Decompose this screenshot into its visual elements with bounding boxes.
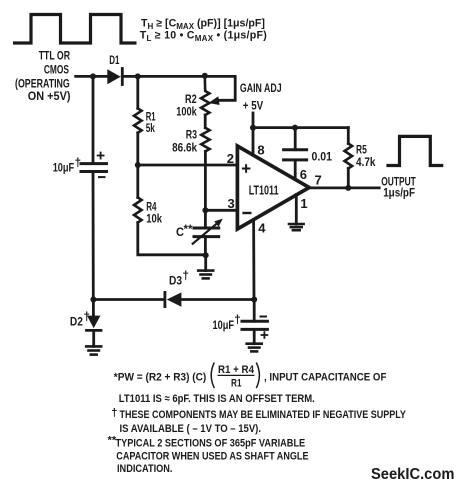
wire: R4 bottom rail to C node [138,223,206,255]
svg-text:†: † [183,270,189,283]
op-amp comparator U1 LT1011 [237,146,309,229]
ground below pin 1 [289,224,304,230]
wire: top to R1 [136,76,139,108]
wire: rail corner to R5 [347,128,350,144]
wire: pin2 node to R4 [136,165,139,198]
svg-text:4.7k: 4.7k [356,156,376,169]
svg-text:86.6k: 86.6k [172,142,197,155]
output pulse waveform [388,136,442,165]
node: D1/R1 junction [135,73,141,79]
svg-text:†: † [75,157,81,170]
svg-text:*PW = (R2 + R3) (C): *PW = (R2 + R3) (C) [114,371,207,383]
diode D3 [165,292,182,306]
wire: R5 bottom to output [347,169,350,188]
resistor R4 [134,198,142,223]
node: source/left-rail junction [90,73,96,79]
wire: output line from pin 7 [309,186,379,189]
node: pin3/C junction [202,207,208,213]
polarity - (input cap) [99,176,105,178]
wire: C bottom to ground node [204,237,207,256]
svg-text:10μF: 10μF [53,162,74,175]
wire: pin 2 line [138,164,238,167]
svg-text:8: 8 [257,142,264,157]
diode D1 [107,69,122,85]
fraction (R1 + R4)/R1 [211,363,259,390]
wire: 0.01 to pin 6 [294,160,297,180]
wire: node to ground [204,255,207,270]
svg-text:ON +5V): ON +5V) [28,90,71,103]
ground below D2 [86,346,101,354]
label R2 [176,93,197,118]
svg-text:LT1011: LT1011 [249,183,279,198]
svg-text:+ 5V: + 5V [243,100,264,113]
svg-text:3: 3 [228,196,235,211]
polarity + (input cap) [98,153,104,159]
svg-text:IS AVAILABLE ( – 1V TO – 15V): IS AVAILABLE ( – 1V TO – 15V). [120,423,262,435]
node: D2/D3 junction [90,297,96,303]
svg-text:†: † [111,407,117,419]
svg-text:D2: D2 [70,315,83,328]
diode D2 [87,316,102,331]
svg-text:GAIN ADJ: GAIN ADJ [240,82,282,95]
capacitor 0.01 [284,150,307,160]
svg-text:6: 6 [300,167,307,182]
svg-text:THESE COMPONENTS MAY BE ELIMIN: THESE COMPONENTS MAY BE ELIMINATED IF NE… [120,409,407,421]
capacitor C2 10uF bypass [242,321,267,329]
svg-text:**: ** [184,223,194,236]
svg-text:D1: D1 [109,54,120,67]
svg-text:INDICATION.: INDICATION. [117,463,173,475]
node: C/R4/ground junction [203,252,209,258]
svg-text:CAPACITOR WHEN USED AS SHAFT A: CAPACITOR WHEN USED AS SHAFT ANGLE [116,450,309,462]
svg-text:10μF: 10μF [213,319,235,332]
wire: bypass cap to ground [253,329,256,343]
op-amp + input sign [243,165,250,172]
svg-text:R1: R1 [231,378,242,390]
ground below bypass cap [247,344,262,352]
potentiometer R2 [201,76,209,115]
svg-text:TTL OR: TTL OR [39,50,71,63]
resistor R3 [201,128,209,152]
wire: +5V to pin 8 [252,113,255,155]
svg-text:SeekIC.com: SeekIC.com [371,466,454,483]
svg-text:†: † [84,311,90,324]
svg-text:0.01: 0.01 [312,150,333,163]
wire: left rail lower [92,172,95,300]
svg-text:7: 7 [315,173,322,188]
svg-text:R3: R3 [186,129,198,142]
svg-text:(OPERATING: (OPERATING [15,78,70,91]
wire: R2 to R3 [204,115,207,128]
input TTL square-wave waveform [13,15,137,44]
wire: pin 1 to ground [295,195,298,225]
svg-text:1μs/pF: 1μs/pF [383,187,415,200]
svg-text:100k: 100k [176,105,197,118]
node: pin4/bypass-cap junction [251,297,257,303]
wire: node to C top [204,210,207,228]
wire: source to D1 anode [76,75,108,78]
wire: node to D2 anode [92,300,95,317]
svg-text:10k: 10k [146,213,162,226]
svg-text:D3: D3 [169,274,182,287]
wire: pin 4 down to negative node [252,220,255,300]
wire: R2 wiper loop [205,76,235,100]
svg-text:†: † [234,314,240,327]
svg-text:TYPICAL 2 SECTIONS OF 365pF VA: TYPICAL 2 SECTIONS OF 365pF VARIABLE [116,437,306,449]
svg-text:R2: R2 [185,93,197,106]
variable capacitor C** [193,219,223,244]
wire: left rail upper [92,76,95,163]
wire: rail to 0.01 [294,128,297,150]
op-amp - input sign [244,212,251,214]
label TTL OR CMOS (OPERATING ON +5V) [15,50,71,103]
wire: pin 3 line [205,209,237,212]
wire: R3 bottom through pin2 line to pin3 node [204,151,207,210]
svg-text:2: 2 [227,151,234,166]
ground below C** [198,271,213,279]
resistor R1 [134,108,142,133]
svg-text:1: 1 [300,196,307,211]
polarity + (bypass cap) [262,332,268,338]
wire: +5V rail [253,126,348,129]
node: R1/R4/pin2 junction [135,162,141,168]
wire: D2 cathode to ground [92,330,95,346]
potentiometer R2 wiper arrowhead [208,96,219,105]
node: R5/output junction [345,185,351,191]
svg-text:5k: 5k [146,122,156,135]
resistor R5 [345,144,353,169]
svg-text:, INPUT CAPACITANCE OF: , INPUT CAPACITANCE OF [264,371,387,383]
capacitor C1 10uF input [81,164,107,172]
svg-text:4: 4 [258,221,266,236]
wire: R1 bottom to pin2 node [136,133,139,165]
node: R2 top junction [202,73,208,79]
wire: node to bypass cap [253,300,256,322]
node: +5V rail junction [250,125,256,131]
wire: D1 cathode to R2 top [122,75,205,78]
wire: D3 anode to pin4 node [181,298,254,301]
svg-text:R1 + R4: R1 + R4 [218,364,255,376]
wire: left node to D3 cathode [93,298,163,301]
polarity - (bypass cap) [261,316,267,318]
svg-text:CMOS: CMOS [44,63,69,76]
svg-text:R5: R5 [356,144,367,157]
svg-text:LT1011 IS ≈ 6pF. THIS IS AN OF: LT1011 IS ≈ 6pF. THIS IS AN OFFSET TERM. [119,393,315,405]
node: rail/0.01 junction [292,125,298,131]
label R3 [172,129,197,155]
